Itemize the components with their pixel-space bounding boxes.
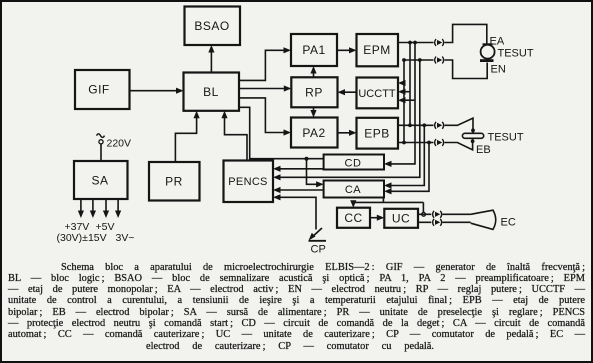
- block RP: [291, 77, 337, 107]
- block UC: [384, 209, 418, 228]
- mains symbol 220V: [97, 134, 105, 161]
- label EN: [491, 64, 506, 76]
- wire BL to CD: [239, 107, 324, 158]
- block PA1: [291, 34, 337, 66]
- bus vertical V2: [409, 43, 411, 126]
- connector EPB line 1: [435, 122, 444, 129]
- svg-text:EC: EC: [501, 217, 516, 229]
- electrode horn EC: [471, 210, 496, 229]
- node circle on UC output: [422, 212, 426, 216]
- wire BL to BSAO: [208, 45, 214, 73]
- label TESUT monopolar: [498, 48, 534, 60]
- svg-text:CP: CP: [311, 244, 326, 256]
- wire BL to PA1: [239, 47, 291, 80]
- wire EPB output 1: [398, 118, 473, 133]
- block BL: [184, 73, 240, 111]
- node EPB2 V1: [402, 141, 406, 145]
- wire UC output 2: [418, 221, 471, 223]
- svg-text:CD: CD: [345, 157, 362, 169]
- svg-text:EPB: EPB: [364, 126, 390, 140]
- wire PENCS to BL: [221, 111, 247, 161]
- bus vertical V4 to PENCS: [273, 60, 420, 180]
- svg-text:BSAO: BSAO: [194, 19, 229, 33]
- wire PA2 to EPB: [338, 130, 357, 136]
- wire SA output 4: [115, 199, 121, 218]
- label TESUT bipolar: [488, 132, 524, 144]
- connector EN line: [435, 57, 444, 64]
- label EB: [476, 144, 491, 156]
- svg-text:UCCTT: UCCTT: [358, 88, 396, 100]
- wire EPB output 2: [398, 138, 473, 150]
- wire UCCTT sense 3: [398, 97, 415, 103]
- node EPM line V3: [413, 41, 417, 45]
- wire UCCTT to RP: [338, 89, 357, 95]
- label EC: [501, 217, 516, 229]
- tissue circle TESUT monopolar: [481, 45, 495, 59]
- bus vertical V3 to CD: [384, 43, 415, 168]
- wire junction to CA: [307, 159, 324, 188]
- pedal switch CP: [309, 228, 327, 241]
- label +5V: [96, 221, 115, 233]
- svg-text:TESUT: TESUT: [488, 132, 524, 144]
- svg-text:UC: UC: [392, 211, 410, 225]
- connector EPB line 2: [435, 139, 444, 146]
- block CA: [324, 181, 384, 198]
- wire GIF to BL: [130, 88, 184, 94]
- node EN line V1: [402, 58, 406, 62]
- block EPB: [357, 118, 399, 149]
- block PA2: [291, 118, 338, 148]
- svg-text:EPM: EPM: [363, 43, 391, 57]
- wire UCCTT sense 2: [398, 89, 410, 95]
- svg-text:RP: RP: [305, 86, 323, 100]
- wire SA output 1: [78, 199, 84, 218]
- svg-text:220V: 220V: [107, 137, 132, 149]
- block SA: [74, 161, 128, 199]
- wire SA output 2: [90, 199, 96, 218]
- svg-text:CA: CA: [345, 184, 361, 196]
- electrode EA tick: [483, 43, 493, 45]
- block UCCTT: [357, 78, 399, 109]
- svg-text:PA2: PA2: [302, 126, 325, 140]
- connector UC line 2: [433, 219, 442, 226]
- svg-text:PENCS: PENCS: [228, 176, 267, 188]
- wire CA to CC and UC branch: [350, 198, 423, 213]
- wire PA1 to EPM: [337, 47, 357, 53]
- svg-text:(30V)±15V: (30V)±15V: [57, 232, 107, 244]
- label 3V~: [116, 232, 135, 244]
- wire BL to PA2: [239, 98, 291, 136]
- label 220V: [107, 137, 132, 149]
- wire RP to PA1: [310, 66, 316, 77]
- wire RP to PA2: [310, 107, 316, 117]
- svg-text:PA1: PA1: [302, 43, 325, 57]
- wire CP to PENCS: [273, 194, 316, 229]
- node junction on CD feed: [305, 157, 309, 161]
- node EPB1 V2: [408, 123, 412, 127]
- wire CD to PENCS: [273, 166, 324, 172]
- wire PR to BL: [175, 111, 199, 162]
- svg-text:EA: EA: [490, 36, 505, 48]
- svg-text:EB: EB: [476, 144, 491, 156]
- node EPB2 V6: [427, 141, 431, 145]
- wire SA output 3: [103, 199, 109, 218]
- node EB tip top: [471, 129, 475, 133]
- label CP: [311, 244, 326, 256]
- block GIF: [75, 70, 130, 109]
- svg-text:BL: BL: [203, 85, 219, 99]
- bus vertical V5 to CA: [384, 125, 424, 188]
- node EN line V4: [418, 58, 422, 62]
- block PENCS: [224, 161, 274, 203]
- label +37V: [65, 221, 90, 233]
- connector UC line 1: [433, 211, 442, 218]
- block BSAO: [185, 7, 241, 46]
- node EPM line V2: [408, 41, 412, 45]
- node EPB1 V5: [422, 123, 426, 127]
- wire EN return: [404, 60, 487, 79]
- wire UC output 1: [418, 213, 471, 215]
- wire CA to PENCS: [273, 187, 324, 193]
- connector EPM line: [435, 39, 444, 46]
- label (30V)±15V: [57, 232, 107, 244]
- wire BL to RP: [239, 85, 291, 91]
- block PR: [149, 162, 200, 201]
- svg-text:CC: CC: [344, 211, 362, 225]
- svg-text:SA: SA: [91, 174, 108, 188]
- svg-text:GIF: GIF: [88, 83, 110, 97]
- svg-text:EN: EN: [491, 64, 506, 76]
- bus vertical V6 to CA: [384, 143, 429, 195]
- svg-text:TESUT: TESUT: [498, 48, 534, 60]
- wire UCCTT sense 1: [398, 80, 406, 86]
- label EA: [490, 36, 505, 48]
- svg-text:PR: PR: [165, 175, 183, 189]
- block CD: [324, 155, 384, 170]
- bus vertical V1: [403, 60, 405, 143]
- electrode EN plate: [480, 59, 494, 62]
- wire EPM output: [398, 24, 487, 44]
- tissue capsule TESUT bipolar: [462, 133, 483, 138]
- node EB tip bottom: [471, 139, 475, 143]
- block EPM: [357, 34, 399, 66]
- block CC: [337, 208, 370, 228]
- wire CC to UC: [370, 215, 384, 221]
- svg-text:3V~: 3V~: [116, 232, 135, 244]
